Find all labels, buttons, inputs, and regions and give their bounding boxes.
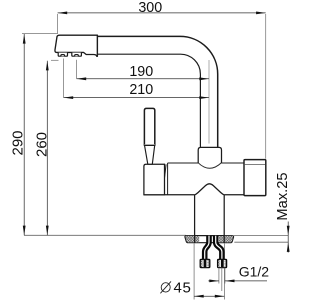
svg-text:45: 45 <box>174 280 192 297</box>
svg-text:300: 300 <box>138 0 162 16</box>
svg-text:G1/2: G1/2 <box>239 264 270 280</box>
svg-text:210: 210 <box>129 82 153 98</box>
svg-text:190: 190 <box>129 64 153 80</box>
svg-text:Max.25: Max.25 <box>275 172 291 220</box>
svg-text:290: 290 <box>9 130 26 155</box>
svg-text:260: 260 <box>33 132 50 157</box>
